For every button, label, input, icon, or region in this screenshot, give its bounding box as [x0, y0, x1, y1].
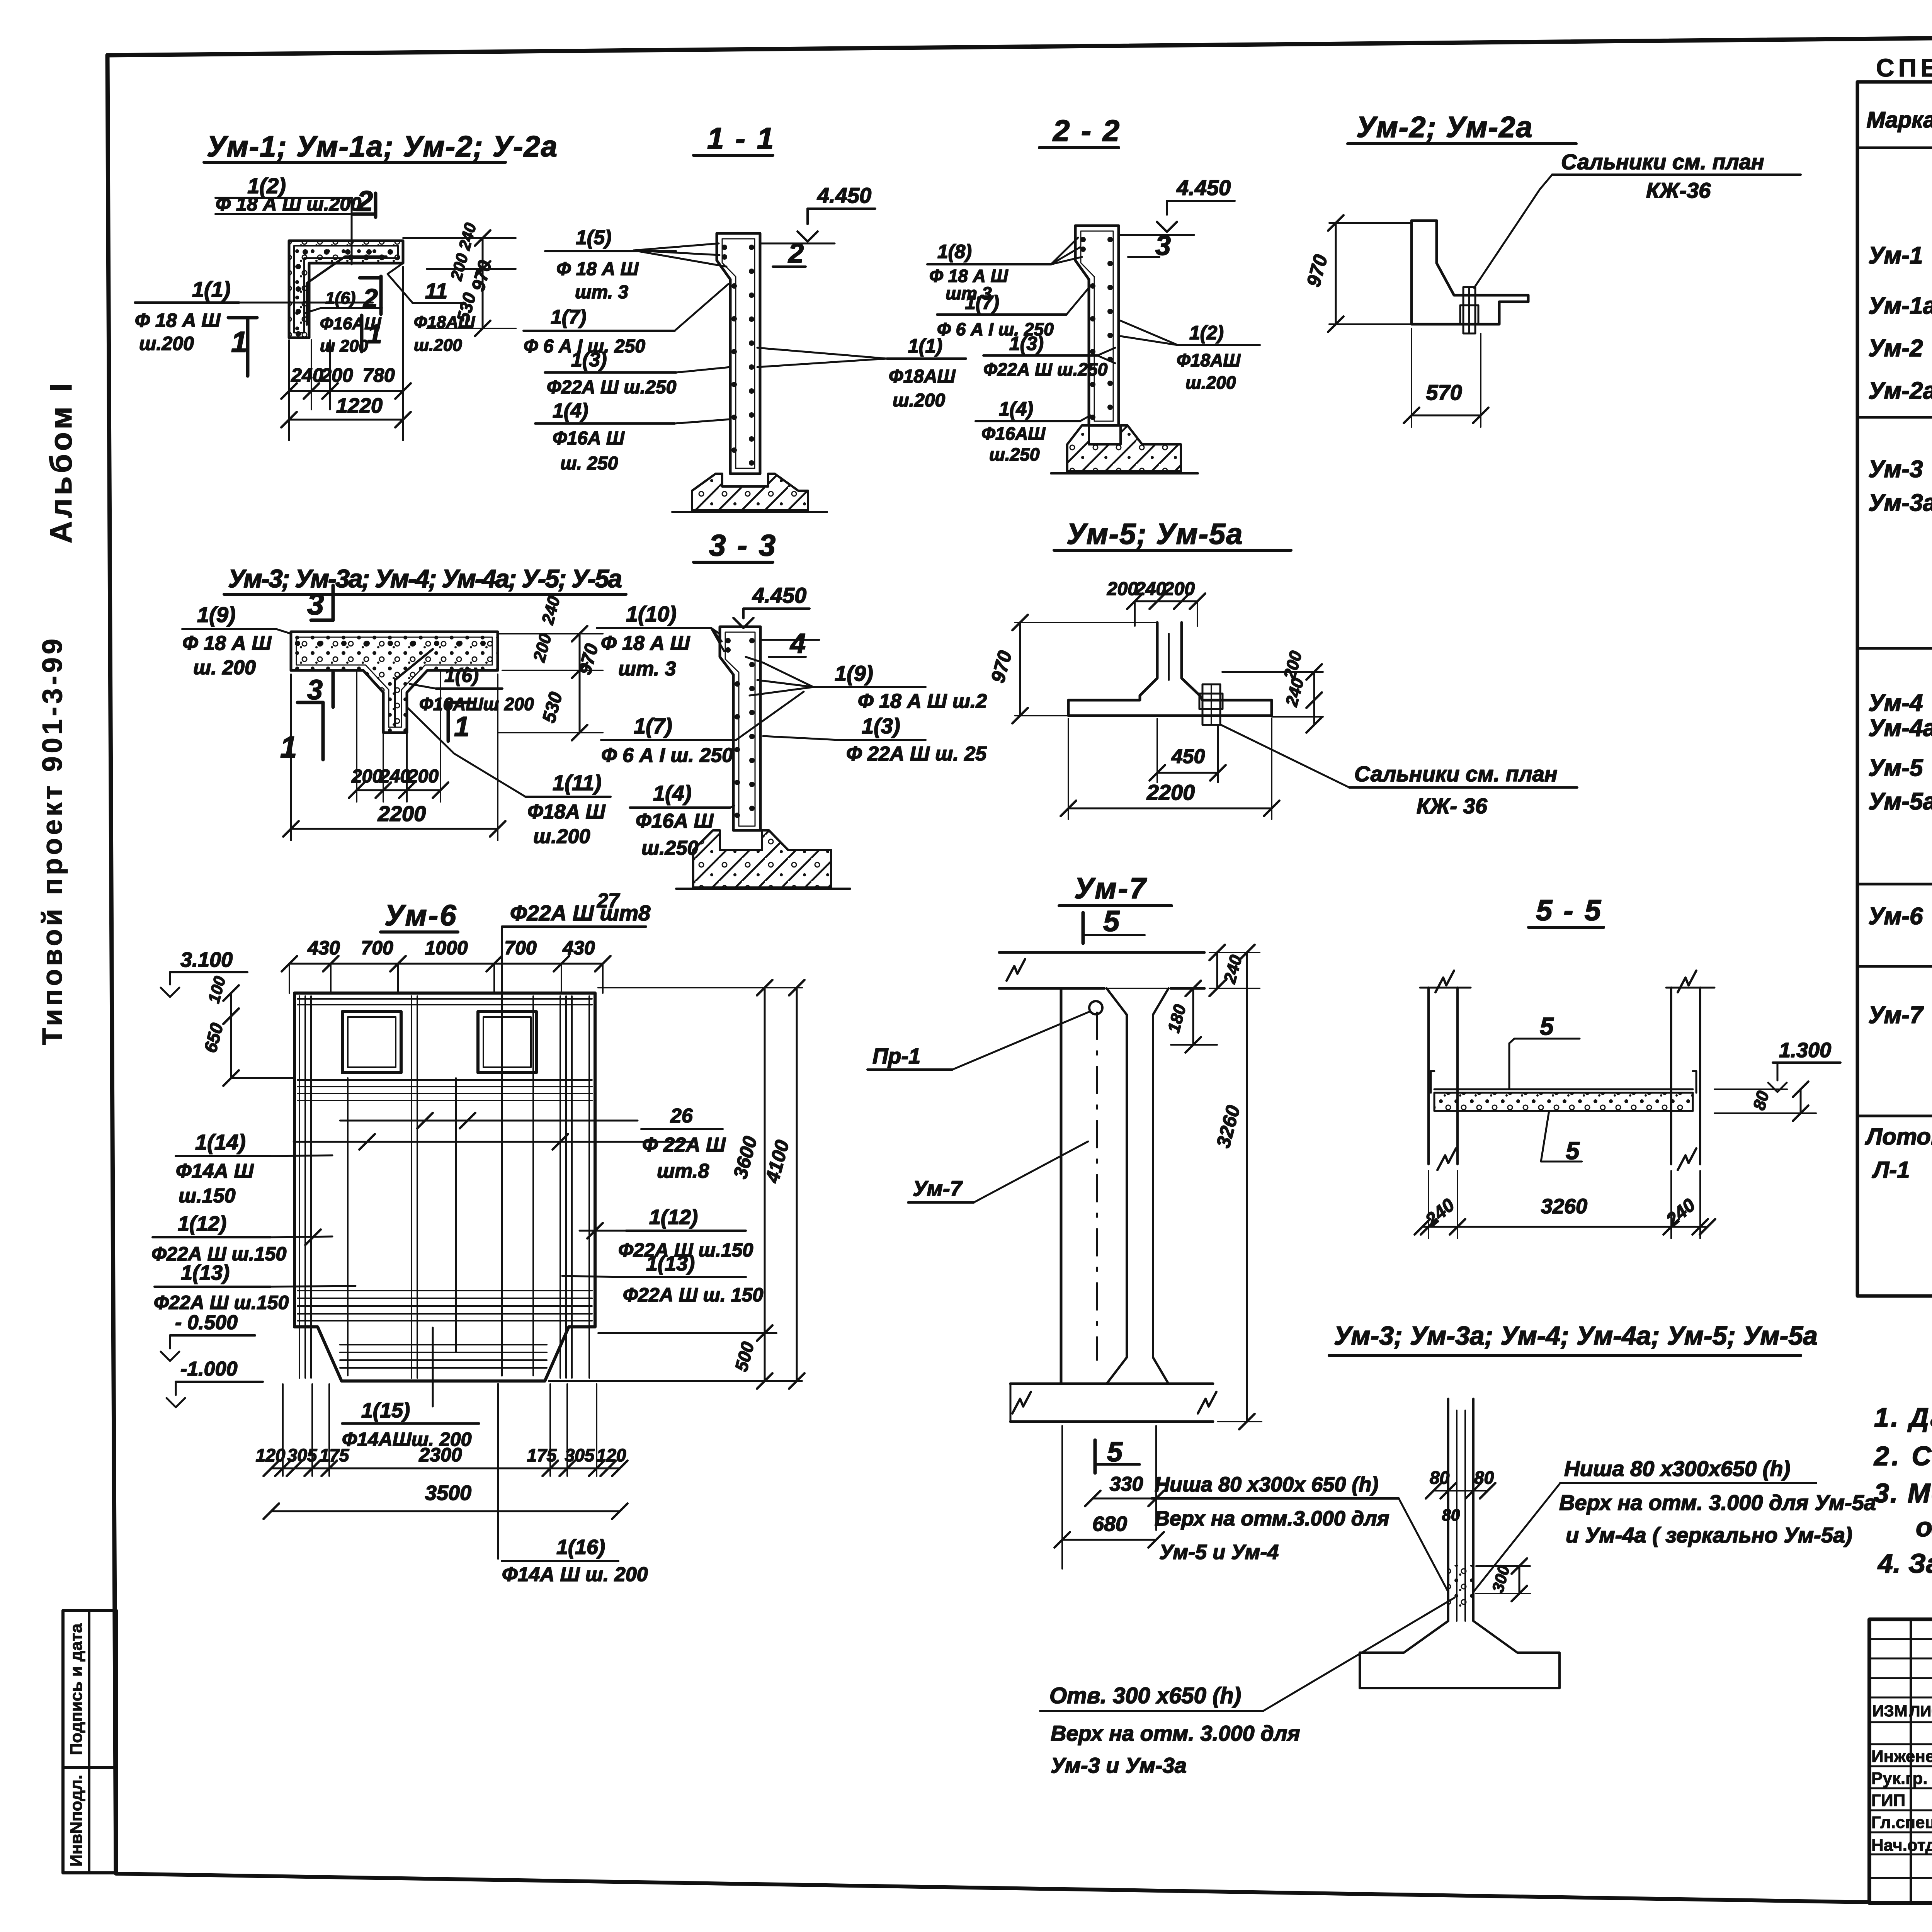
svg-text:3.100: 3.100 [180, 948, 233, 971]
svg-text:305: 305 [565, 1445, 595, 1465]
svg-text:305: 305 [287, 1445, 318, 1465]
svg-text:ш. 200: ш. 200 [193, 656, 256, 679]
svg-text:1: 1 [367, 319, 382, 349]
section mark 2 upper [374, 193, 378, 217]
5-5 left wall [1427, 988, 1430, 1164]
Ум-6 long leader bars 26 [340, 1120, 638, 1122]
svg-text:3. Монолитные участки с инд: 3. Монолитные участки с индексом „а“ зер… [1874, 1478, 1932, 1508]
svg-text:1: 1 [454, 711, 469, 742]
svg-text:Ум-2а: Ум-2а [1868, 378, 1932, 404]
dimension row 240 200 780 below Ум-1 [288, 340, 290, 440]
svg-text:1.300: 1.300 [1779, 1039, 1831, 1062]
svg-text:Рук.гр.: Рук.гр. [1871, 1769, 1928, 1788]
section mark 1 mid [360, 315, 364, 352]
svg-text:Ум-2; Ум-2а: Ум-2; Ум-2а [1356, 111, 1533, 144]
svg-text:шт. 3: шт. 3 [618, 658, 676, 680]
svg-text:240: 240 [379, 766, 410, 787]
svg-text:и Ум-4а ( зеркально Ум-5а): и Ум-4а ( зеркально Ум-5а) [1566, 1523, 1852, 1547]
svg-text:Ум-5; Ум-5а: Ум-5; Ум-5а [1066, 518, 1243, 551]
svg-text:Ф22А Ш шт8: Ф22А Ш шт8 [510, 901, 651, 925]
svg-text:2 - 2: 2 - 2 [1052, 114, 1121, 148]
svg-text:Альбом I: Альбом I [44, 380, 78, 544]
dims 200 240 200 below Ум-3 stem [356, 672, 357, 802]
svg-text:1(15): 1(15) [361, 1399, 410, 1422]
svg-text:5: 5 [1107, 1437, 1123, 1468]
right-side vertical dims 200 240 970 530 of Ум-1 [403, 237, 516, 239]
svg-text:Типовой проект 901-3-99: Типовой проект 901-3-99 [37, 636, 68, 1045]
svg-text:1(4): 1(4) [999, 398, 1033, 420]
bent rebar in Ум-3 stem [395, 649, 433, 726]
wall section 1-1 [717, 233, 760, 474]
svg-text:- 0.500: - 0.500 [175, 1311, 238, 1334]
dim 2200 below Ум-3 [290, 674, 292, 840]
svg-text:2: 2 [356, 185, 373, 217]
dim 3500 of Ум-6 [271, 1510, 620, 1512]
section mark 3 upper [332, 585, 335, 620]
svg-text:Ф18АШ: Ф18АШ [889, 366, 956, 387]
svg-text:Ум-3 и Ум-3а: Ум-3 и Ум-3а [1051, 1753, 1187, 1777]
svg-text:700: 700 [504, 937, 537, 959]
svg-text:Марка: Марка [1866, 107, 1932, 133]
svg-text:1(11): 1(11) [553, 770, 602, 795]
svg-text:Ф16А Ш: Ф16А Ш [553, 428, 625, 449]
svg-text:Ф 18 А Ш: Ф 18 А Ш [182, 632, 272, 655]
svg-text:Ум-3; Ум-3а; Ум-4; Ум-4а; Ум-5: Ум-3; Ум-3а; Ум-4; Ум-4а; Ум-5; Ум-5а [1334, 1321, 1818, 1350]
label 1(15) Ф14АIIIш.200 below Ум-6 [432, 1328, 434, 1406]
rebar dots Ум-3 [295, 641, 300, 646]
svg-text:Л-1: Л-1 [1872, 1157, 1910, 1183]
svg-text:основному виду.: основному виду. [1916, 1512, 1932, 1542]
svg-text:Ф16АШ: Ф16АШ [981, 423, 1046, 444]
dim 180 [1192, 988, 1194, 1045]
svg-text:Инженер: Инженер [1871, 1747, 1932, 1766]
section mark 5 lower of Ум-7 [1094, 1440, 1097, 1473]
svg-text:Верх на отм.3.000 для: Верх на отм.3.000 для [1155, 1507, 1389, 1530]
svg-text:Гл.спец.: Гл.спец. [1871, 1813, 1932, 1832]
Ум-7 top flange [999, 951, 1204, 954]
dim 300 right of niche [1476, 1565, 1530, 1567]
svg-text:Пр-1: Пр-1 [872, 1044, 920, 1068]
svg-text:1(10): 1(10) [626, 602, 677, 626]
svg-text:Ум-6: Ум-6 [1868, 903, 1923, 930]
footing of section 1-1 [692, 474, 808, 510]
svg-text:1(8): 1(8) [937, 241, 972, 262]
svg-text:Ум-7: Ум-7 [1074, 872, 1147, 905]
dim 3260 right of Ум-7 [1246, 952, 1248, 1422]
svg-text:Ум-6: Ум-6 [384, 899, 457, 932]
svg-text:450: 450 [1171, 745, 1205, 768]
svg-text:11: 11 [425, 279, 447, 303]
svg-text:570: 570 [1426, 380, 1462, 405]
svg-text:Ф22А Ш ш.250: Ф22А Ш ш.250 [547, 377, 677, 398]
svg-text:ш. 250: ш. 250 [560, 453, 618, 474]
svg-text:1(4): 1(4) [653, 781, 692, 805]
Пр-1 circle and label [1089, 1001, 1102, 1014]
svg-text:ш.250: ш.250 [989, 444, 1040, 464]
svg-text:1(9): 1(9) [835, 661, 873, 685]
svg-text:200: 200 [504, 694, 534, 714]
svg-text:Ф 18 А Ш: Ф 18 А Ш [601, 632, 690, 655]
svg-text:Ф 6 А I ш. 250: Ф 6 А I ш. 250 [601, 744, 733, 767]
svg-text:Ф22А Ш ш. 150: Ф22А Ш ш. 150 [623, 1284, 763, 1306]
Ум-6 outer plan outline [294, 993, 595, 1381]
wall section 3-3 [720, 627, 760, 830]
svg-text:1(2): 1(2) [1189, 322, 1224, 344]
svg-text:200: 200 [351, 766, 383, 787]
svg-text:ш.200: ш.200 [893, 390, 945, 411]
svg-text:Ум-3: Ум-3 [1868, 456, 1923, 483]
svg-text:Сальники см. план: Сальники см. план [1561, 150, 1764, 174]
dim 970 left of Ум-5 [1015, 622, 1157, 623]
section mark 5 upper of Ум-7 [1082, 913, 1085, 943]
svg-text:1(7): 1(7) [965, 292, 999, 313]
svg-text:1(6): 1(6) [325, 289, 355, 308]
Ум-6 opening left [342, 1012, 401, 1073]
dimension 1220 below Ум-1 [289, 419, 403, 421]
dim 2200 below Ум-5 [1068, 719, 1069, 819]
svg-text:3: 3 [307, 675, 323, 706]
svg-text:Подпись и дата: Подпись и дата [67, 1623, 86, 1755]
svg-text:1(13): 1(13) [646, 1252, 695, 1275]
svg-text:ш.200: ш.200 [1185, 372, 1236, 393]
section mark 1 lower-left [228, 316, 257, 320]
svg-text:1(13): 1(13) [181, 1261, 230, 1284]
svg-text:ш.150: ш.150 [179, 1185, 236, 1207]
svg-text:1 - 1: 1 - 1 [707, 121, 775, 155]
Ум-3 T-section slab and stem [291, 632, 498, 733]
svg-text:Ф14А Ш: Ф14А Ш [176, 1160, 254, 1182]
svg-text:2: 2 [362, 284, 378, 313]
bent rebar 1(6) in section Ум-1 [307, 257, 386, 325]
Ум-6 rebar grid horizontals [298, 998, 592, 1000]
svg-text:200: 200 [407, 766, 439, 787]
rebar dots wall 1-1 [749, 245, 754, 250]
svg-text:Ф18АШ: Ф18АШ [1177, 350, 1241, 370]
svg-text:4.450: 4.450 [752, 583, 806, 607]
bottom dims 120 305 175 2300 175 305 120 of Ум-6 [282, 1384, 284, 1476]
svg-text:430: 430 [562, 937, 595, 959]
svg-text:5: 5 [1540, 1012, 1554, 1040]
Ум-5 T-junction piece [1068, 622, 1272, 716]
svg-text:3: 3 [1155, 230, 1171, 261]
svg-text:СПЕЦИФИКАЦИЯ МАРОК АРМАТУРНЫ: СПЕЦИФИКАЦИЯ МАРОК АРМАТУРНЫХ ИЗДЕЛИЙ [1876, 53, 1932, 82]
svg-text:Ф14А Ш ш. 200: Ф14А Ш ш. 200 [502, 1563, 648, 1586]
label 1(16) Ф14АIIIш.200 [497, 1384, 499, 1559]
svg-text:120: 120 [597, 1445, 626, 1465]
svg-text:80: 80 [1474, 1468, 1494, 1488]
svg-text:5 - 5: 5 - 5 [1536, 894, 1602, 927]
svg-text:Ум-1: Ум-1 [1868, 242, 1923, 269]
svg-text:700: 700 [361, 937, 393, 959]
dim 680 below Ум-7 [1062, 1539, 1156, 1541]
svg-text:Ниша 80 х300х 650 (h): Ниша 80 х300х 650 (h) [1155, 1473, 1378, 1496]
svg-text:4. Защитный слой бетона - 20: 4. Защитный слой бетона - 20 мм. [1877, 1548, 1932, 1578]
svg-text:3: 3 [307, 587, 324, 621]
svg-text:4.450: 4.450 [817, 183, 871, 207]
svg-text:Ум-4а: Ум-4а [1868, 715, 1932, 742]
svg-text:Ниша 80 х300х650 (h): Ниша 80 х300х650 (h) [1564, 1456, 1790, 1481]
5-5 right wall [1670, 988, 1672, 1164]
svg-text:1(14): 1(14) [195, 1130, 246, 1154]
section mark 2 on wall 1-1 [773, 265, 806, 268]
dims 200 240 right of Ум-5 [1222, 671, 1323, 673]
svg-text:200: 200 [1107, 579, 1138, 599]
niche detail base [1360, 1621, 1560, 1688]
svg-text:200: 200 [1163, 579, 1195, 599]
svg-text:26: 26 [670, 1105, 693, 1127]
svg-text:Ум-7: Ум-7 [913, 1176, 963, 1201]
svg-text:1(12): 1(12) [649, 1206, 698, 1229]
svg-text:ш.200: ш.200 [533, 825, 590, 848]
сальник box in Ум-2 [1463, 287, 1475, 333]
svg-text:ш.200: ш.200 [414, 336, 462, 355]
svg-text:1(5): 1(5) [576, 226, 611, 249]
svg-text:175: 175 [320, 1445, 350, 1465]
svg-text:Ум-4: Ум-4 [1868, 690, 1923, 716]
svg-text:Отв. 300 х650 (h): Отв. 300 х650 (h) [1049, 1683, 1241, 1708]
svg-text:3 - 3: 3 - 3 [709, 528, 777, 562]
svg-text:ГИП: ГИП [1871, 1791, 1905, 1810]
svg-text:780: 780 [362, 364, 395, 386]
svg-text:Ф 18 А Ш: Ф 18 А Ш [135, 310, 221, 331]
svg-text:1(7): 1(7) [634, 714, 672, 738]
svg-text:1(3): 1(3) [571, 349, 607, 371]
dim 240 right of Ум-7 flange [1209, 952, 1260, 953]
svg-text:Ум-7: Ум-7 [1868, 1002, 1924, 1029]
svg-text:Ф16А Ш: Ф16А Ш [636, 810, 714, 832]
svg-text:175: 175 [527, 1445, 557, 1465]
Ум-7 bottom flange [1010, 1383, 1213, 1385]
svg-text:2200: 2200 [1146, 780, 1195, 804]
Ум-2 angle piece outline [1412, 221, 1528, 324]
svg-text:-1.000: -1.000 [180, 1358, 238, 1380]
rebar dots section Ум-1 [303, 249, 308, 255]
svg-text:1(6): 1(6) [444, 665, 479, 686]
svg-text:ш.250: ш.250 [641, 837, 699, 859]
svg-text:Верх на отм. 3.000 для Ум-5а: Верх на отм. 3.000 для Ум-5а [1559, 1490, 1876, 1515]
Ум-7 web [1060, 988, 1063, 1384]
svg-text:шт. 3: шт. 3 [575, 282, 628, 303]
section marks 1 and 3 below Ум-3 [321, 702, 325, 760]
5-5 floor slab [1434, 1088, 1693, 1090]
svg-text:1(16): 1(16) [556, 1536, 605, 1559]
svg-text:1(3): 1(3) [862, 714, 900, 738]
svg-text:Нач.отд.: Нач.отд. [1871, 1836, 1932, 1855]
svg-text:1: 1 [231, 326, 247, 359]
svg-text:Ум-3а: Ум-3а [1868, 490, 1932, 516]
dim 970 for Ум-2 [1329, 222, 1412, 224]
title block grid [1869, 1619, 1932, 1903]
svg-text:Сальники см. план: Сальники см. план [1354, 762, 1558, 786]
svg-text:5: 5 [1103, 905, 1120, 938]
section mark 2 lower [379, 276, 383, 314]
svg-text:120: 120 [256, 1445, 286, 1465]
right dims 3600 4100 500 of Ум-6 [598, 987, 802, 988]
svg-text:2300: 2300 [418, 1444, 462, 1466]
rebar dots wall 3-3 [749, 638, 755, 643]
svg-text:Ф22А Ш ш.250: Ф22А Ш ш.250 [983, 359, 1108, 379]
Ум-7 web centerline dashes [1096, 1012, 1098, 1360]
svg-text:1(1): 1(1) [192, 277, 231, 301]
svg-text:КЖ- 36: КЖ- 36 [1417, 794, 1488, 818]
svg-text:1000: 1000 [425, 937, 468, 959]
svg-text:ш.200: ш.200 [139, 333, 194, 354]
svg-text:Ф18А Ш: Ф18А Ш [527, 801, 605, 823]
svg-text:1. Данный лист см. совместно с: 1. Данный лист см. совместно с листом КЖ… [1874, 1402, 1932, 1432]
svg-text:ЛИСТ: ЛИСТ [1909, 1703, 1932, 1720]
svg-text:Лоток: Лоток [1865, 1124, 1932, 1150]
right-side dims 240 200 970 530 of Ум-3 [498, 633, 603, 634]
dim 450 below Ум-5 [1156, 719, 1158, 782]
svg-text:1220: 1220 [336, 394, 383, 417]
svg-text:1(7): 1(7) [551, 306, 586, 328]
svg-text:2200: 2200 [378, 801, 426, 826]
svg-text:Ум-5 и Ум-4: Ум-5 и Ум-4 [1159, 1541, 1279, 1564]
svg-text:80: 80 [1442, 1506, 1460, 1524]
сальник box in Ум-5 [1202, 684, 1220, 725]
bottom-left margin box: Подпись и дата / Инв N подл. [63, 1611, 116, 1873]
svg-text:5: 5 [1566, 1137, 1580, 1165]
svg-text:1(9): 1(9) [197, 602, 236, 627]
footing of section 2-2 [1067, 425, 1181, 471]
leader to сальник box in Ум-2 [1474, 175, 1552, 288]
svg-text:ИнвNподл.: ИнвNподл. [67, 1775, 86, 1867]
svg-text:Ф 22А Ш: Ф 22А Ш [642, 1134, 726, 1156]
svg-text:Ф 22А Ш ш. 25: Ф 22А Ш ш. 25 [846, 743, 987, 765]
dim 570 for Ум-2 [1411, 328, 1412, 427]
svg-text:Ум-1; Ум-1а; Ум-2; У-2а: Ум-1; Ум-1а; Ум-2; У-2а [207, 130, 558, 163]
svg-text:шт.8: шт.8 [657, 1160, 709, 1182]
dim 80 right of 5-5 [1800, 1089, 1802, 1113]
Ум-6 rebar grid verticals [299, 996, 300, 1378]
svg-text:Ф 18 А Ш ш.200: Ф 18 А Ш ш.200 [216, 193, 361, 215]
svg-text:4: 4 [789, 628, 806, 659]
specification table grid [1857, 82, 1932, 1296]
svg-text:ИЗМ: ИЗМ [1872, 1702, 1908, 1720]
svg-text:Ф22А Ш ш.150: Ф22А Ш ш.150 [154, 1292, 289, 1313]
label 4 on wall 3-3 [769, 656, 806, 658]
svg-text:3260: 3260 [1541, 1195, 1587, 1218]
svg-text:2. Сечение 5-5 замаркировано н: 2. Сечение 5-5 замаркировано на листе КЖ… [1873, 1441, 1932, 1471]
svg-text:Ум-5а: Ум-5а [1868, 788, 1932, 815]
rebar dots wall 2-2 [1107, 237, 1113, 242]
svg-text:Ум-2: Ум-2 [1868, 335, 1923, 362]
section mark 3 on wall 2-2 [1128, 256, 1159, 258]
svg-text:Ум-3; Ум-3а; Ум-4; Ум-4а; У-5;: Ум-3; Ум-3а; Ум-4; Ум-4а; У-5; У-5а [228, 564, 622, 593]
svg-text:3500: 3500 [425, 1481, 471, 1505]
niche detail stem [1447, 1399, 1449, 1621]
L-shaped wall section Ум-1 [289, 241, 403, 338]
bottom dims 240 3260 240 of 5-5 [1428, 1171, 1429, 1238]
svg-text:1(4): 1(4) [553, 400, 588, 422]
svg-text:2: 2 [787, 238, 804, 269]
svg-text:1: 1 [280, 730, 297, 764]
svg-text:Верх на отм. 3.000 для: Верх на отм. 3.000 для [1051, 1721, 1300, 1745]
svg-text:4.450: 4.450 [1176, 175, 1231, 200]
svg-text:Ум-1а: Ум-1а [1868, 293, 1932, 319]
svg-text:КЖ-36: КЖ-36 [1646, 178, 1711, 202]
svg-text:Ум-5: Ум-5 [1868, 755, 1923, 781]
svg-text:1(3): 1(3) [1009, 333, 1044, 354]
wall section 2-2 [1075, 226, 1119, 425]
Ум-6 opening right [478, 1012, 536, 1073]
svg-text:Ф 18 А Ш: Ф 18 А Ш [556, 259, 639, 279]
dim 330 below Ум-7 [1093, 1498, 1156, 1500]
svg-text:680: 680 [1092, 1512, 1127, 1536]
svg-text:Ф 18 А Ш ш.2: Ф 18 А Ш ш.2 [858, 690, 987, 713]
svg-text:1(12): 1(12) [178, 1212, 226, 1235]
footing of section 3-3 [693, 830, 831, 888]
svg-text:430: 430 [307, 937, 340, 959]
svg-text:330: 330 [1110, 1473, 1143, 1495]
